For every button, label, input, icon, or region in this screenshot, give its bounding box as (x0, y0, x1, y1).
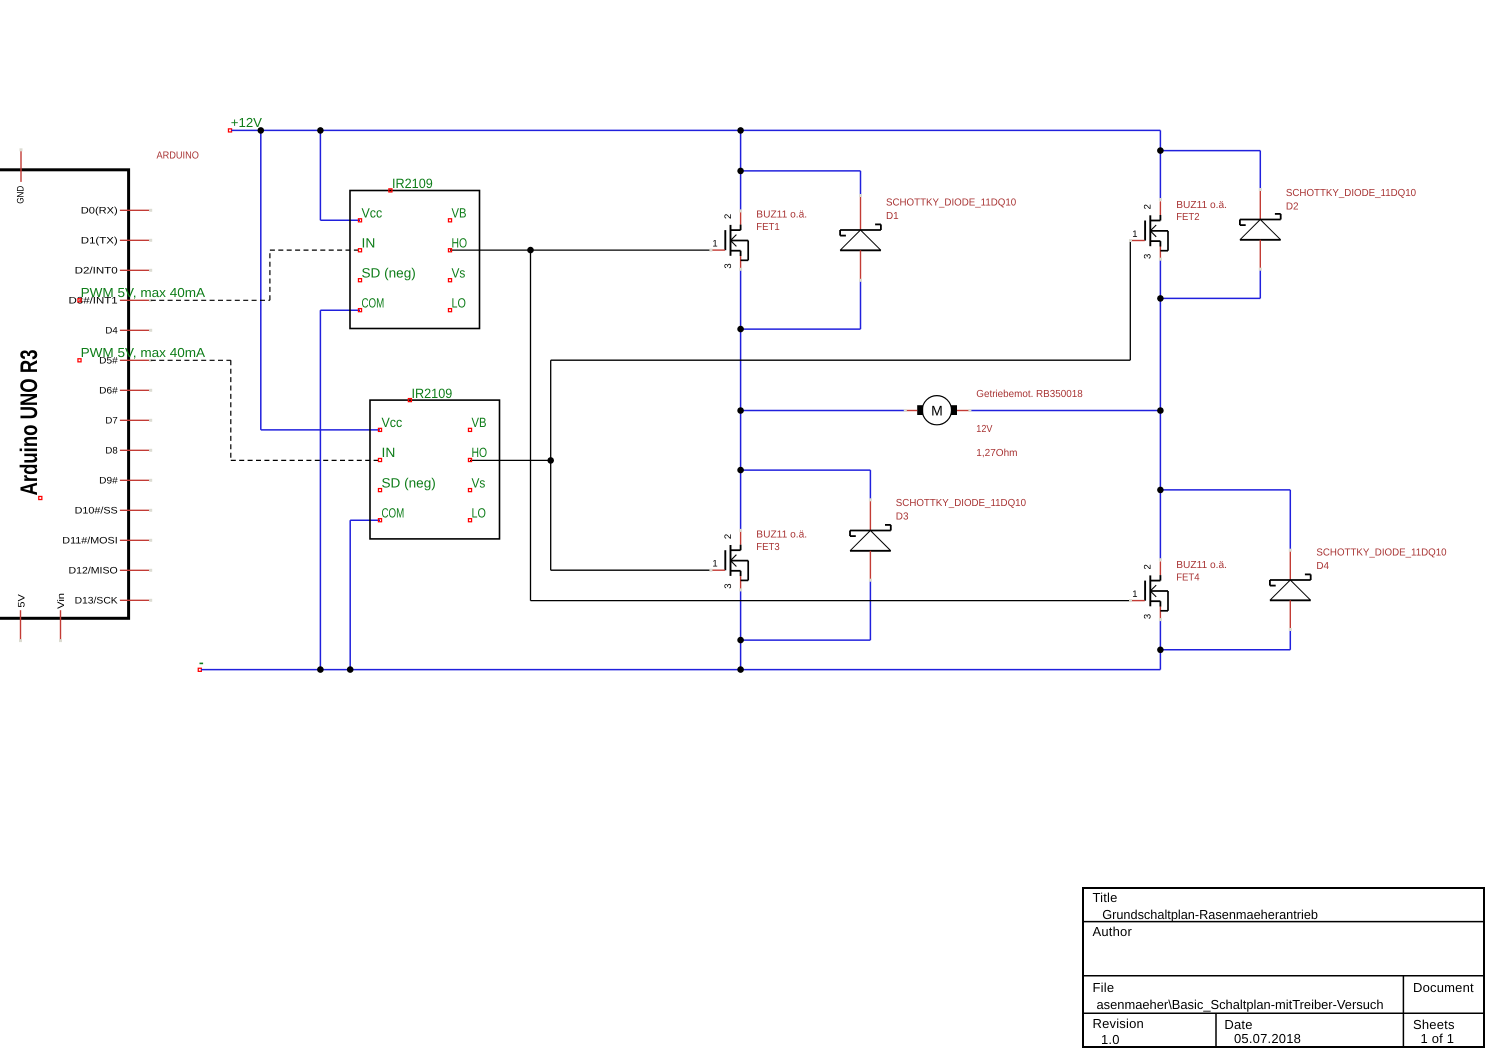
svg-text:1,27Ohm: 1,27Ohm (976, 448, 1017, 459)
wire junction at 1160.4,489.9 (1157, 487, 1164, 494)
diode D4 (Schottky 11DQ10) (1289, 550, 1291, 580)
svg-text:IN: IN (382, 445, 396, 460)
wire junction at 320.4,130.4 (317, 127, 324, 134)
U1 pin Vcc (358, 219, 361, 222)
wire junction at 1160.4,410.5 (1157, 407, 1164, 414)
svg-text:05.07.2018: 05.07.2018 (1234, 1031, 1301, 1046)
svg-text:1.0: 1.0 (1101, 1032, 1120, 1047)
svg-text:2: 2 (1143, 204, 1154, 210)
wire junction at 740.6,470.1 (737, 467, 744, 474)
U1 pin IN (358, 249, 361, 252)
Arduino pin 5V (20, 610, 22, 640)
wire junction at 740.6,410.5 (737, 407, 744, 414)
wire GND bottom rail (201, 669, 1160, 671)
svg-text:D0(RX): D0(RX) (81, 206, 118, 217)
wire D3 branch bottom (869, 580, 871, 640)
wire D4 branch top (1160, 489, 1290, 491)
svg-text:Grundschaltplan-Rasenmaeherant: Grundschaltplan-Rasenmaeherantrieb (1102, 907, 1318, 922)
wire end cap at 1160.4,619.6 (1159, 618, 1162, 621)
svg-text:Vcc: Vcc (382, 415, 403, 430)
wire end cap at 710.9,250.1 (709, 249, 712, 252)
svg-text:COM: COM (362, 295, 385, 310)
svg-text:D8: D8 (105, 446, 117, 457)
Arduino pin D0(RX) (120, 209, 149, 211)
svg-text:SD (neg): SD (neg) (382, 475, 436, 490)
diode D3 (Schottky 11DQ10) (869, 500, 871, 531)
node PWM net 1 marker (78, 299, 81, 302)
transistor FET2 (BUZ11) (1159, 201, 1161, 215)
wire junction at 740.6,130.4 (737, 127, 744, 134)
U2 pin HO (468, 458, 471, 461)
svg-text:1: 1 (712, 239, 718, 250)
svg-text:FET3: FET3 (756, 542, 780, 553)
U2 pin SD (neg) (378, 489, 381, 492)
svg-text:3: 3 (723, 263, 734, 269)
wire end cap at 740.6,269.3 (739, 268, 742, 271)
svg-text:PWM 5V, max 40mA: PWM 5V, max 40mA (81, 345, 206, 360)
node +12V net label marker (228, 129, 231, 132)
U1 pin SD (neg) (358, 279, 361, 282)
svg-text:COM: COM (382, 505, 405, 520)
wire +12V drop to IC1 Vcc (319, 130, 321, 220)
wire junction at 740.6,170.9 (737, 168, 744, 175)
svg-text:12V: 12V (976, 424, 992, 435)
svg-text:Date: Date (1224, 1017, 1252, 1032)
wire HO1 riser down to FET4 gate row (530, 250, 532, 600)
wire end cap at 1130.5,600.6 (1129, 599, 1132, 602)
U2 origin marker (408, 399, 411, 402)
wire motor left (741, 410, 905, 412)
wire D2 branch bottom (1259, 269, 1261, 298)
wire junction at 740.6,669.6 (737, 666, 744, 673)
Arduino pin D3#/INT1 (120, 299, 149, 301)
wire D1 branch top (741, 170, 861, 172)
wire junction at 740.6,329.1 (737, 326, 744, 333)
Arduino pin D10#/SS (120, 509, 149, 511)
title block vertical divider revision/date (1215, 1013, 1217, 1047)
svg-text:+12V: +12V (231, 115, 263, 130)
wire end cap at 1130.5,240.5 (1129, 239, 1132, 242)
wire end cap at 710.9,570.2 (709, 569, 712, 572)
wire junction at 740.6,640.1 (737, 637, 744, 644)
svg-text:Document: Document (1413, 980, 1474, 995)
svg-text:PWM 5V, max 40mA: PWM 5V, max 40mA (81, 285, 206, 300)
Arduino pin D6# (120, 389, 149, 391)
wire end cap at 740.6,210.9 (739, 209, 742, 212)
Arduino pin D9# (120, 479, 149, 481)
svg-text:LO: LO (472, 505, 486, 520)
wire end cap at 740.6,530.4 (739, 529, 742, 532)
svg-text:Sheets: Sheets (1413, 1017, 1455, 1032)
U2 pin COM (378, 519, 381, 522)
svg-text:1: 1 (1132, 229, 1138, 240)
svg-text:Arduino UNO R3: Arduino UNO R3 (16, 350, 43, 496)
svg-text:Vcc: Vcc (362, 206, 383, 221)
transistor FET3 (BUZ11) (740, 531, 742, 545)
U1 pin COM (358, 309, 361, 312)
svg-text:1 of 1: 1 of 1 (1421, 1031, 1455, 1046)
op-amp/driver U1 IR2109 box (350, 191, 480, 329)
title block divider 3 (1083, 1012, 1484, 1014)
svg-text:D10#/SS: D10#/SS (75, 506, 118, 517)
Arduino UNO R3 module box (0, 170, 129, 619)
svg-text:D4: D4 (105, 326, 117, 337)
svg-text:HO: HO (472, 445, 488, 460)
svg-text:FET4: FET4 (1176, 572, 1200, 583)
svg-text:D3: D3 (896, 511, 909, 522)
wire end cap at 1160.4,199.5 (1159, 198, 1162, 201)
svg-text:D13/SCK: D13/SCK (75, 596, 119, 607)
motor pin left (907, 410, 918, 412)
motor M1 (DC motor) (922, 396, 951, 425)
wire dashed PWM net D3#/INT1 to IC1 IN (151, 299, 270, 301)
U1 origin marker (389, 189, 392, 192)
wire IC1 COM to GND rail (320, 309, 360, 311)
Arduino pin D8 (120, 449, 149, 451)
Arduino pin D1(TX) (120, 239, 149, 241)
U2 pin LO (468, 519, 471, 522)
node - (GND) net label marker (198, 668, 201, 671)
Arduino pin D7 (120, 419, 149, 421)
U2 pin VB (468, 428, 471, 431)
Arduino pin D13/SCK (120, 599, 149, 601)
svg-text:SCHOTTKY_DIODE_11DQ10: SCHOTTKY_DIODE_11DQ10 (886, 198, 1017, 209)
svg-text:D1(TX): D1(TX) (81, 236, 118, 247)
transistor FET1 (BUZ11) (740, 211, 742, 225)
node PWM net 2 marker (78, 359, 81, 362)
svg-text:SCHOTTKY_DIODE_11DQ10: SCHOTTKY_DIODE_11DQ10 (1286, 188, 1417, 199)
U2 pin Vs (468, 489, 471, 492)
svg-text:SCHOTTKY_DIODE_11DQ10: SCHOTTKY_DIODE_11DQ10 (1316, 548, 1447, 559)
wire end cap at 1160.4,559.7 (1159, 558, 1162, 561)
wire D3 branch top (741, 469, 871, 471)
wire junction at 530.5,250.1 (527, 247, 534, 254)
wire left bridge leg middle (FET1 source to FET3 drain) (740, 269, 742, 530)
U2 pin Vcc (378, 428, 381, 431)
Arduino pin D4 (120, 329, 149, 331)
wire D2 branch top (1160, 150, 1260, 152)
U1 pin VB (448, 219, 451, 222)
wire junction at 550.7,460.4 (547, 457, 554, 464)
svg-text:BUZ11 o.ä.: BUZ11 o.ä. (1176, 560, 1227, 571)
wire junction at 320.4,669.6 (317, 666, 324, 673)
svg-text:D1: D1 (886, 211, 899, 222)
svg-text:D2/INT0: D2/INT0 (75, 266, 118, 277)
svg-text:2: 2 (1143, 564, 1154, 570)
svg-text:IR2109: IR2109 (412, 386, 453, 401)
svg-text:5V: 5V (16, 593, 27, 607)
svg-text:D7: D7 (105, 416, 117, 427)
wire left bridge leg lower (FET3 source to GND rail) (740, 590, 742, 670)
svg-text:M: M (931, 402, 943, 418)
wire D4 branch bottom (1289, 630, 1291, 650)
svg-text:3: 3 (1143, 613, 1154, 619)
svg-text:File: File (1093, 980, 1115, 995)
title block divider 1 (1083, 921, 1484, 923)
motor pin right (957, 410, 969, 412)
wire right rail upper (+12V to FET2 drain) (1159, 130, 1161, 199)
svg-text:D4: D4 (1316, 561, 1329, 572)
wire +12V drop to IC2 Vcc (260, 130, 262, 430)
svg-text:D12/MISO: D12/MISO (69, 566, 118, 577)
svg-text:D2: D2 (1286, 202, 1299, 213)
svg-text:Title: Title (1093, 890, 1118, 905)
wire HO2 upper run to FET2 (551, 359, 1131, 361)
wire end cap at 1160.4,259.2 (1159, 258, 1162, 261)
svg-text:BUZ11 o.ä.: BUZ11 o.ä. (1176, 200, 1227, 211)
diode D2 (Schottky 11DQ10) (1259, 190, 1261, 220)
title block frame (1083, 888, 1484, 1047)
svg-text:LO: LO (452, 295, 466, 310)
wire motor right (969, 410, 1160, 412)
svg-text:BUZ11 o.ä.: BUZ11 o.ä. (756, 209, 807, 220)
svg-text:2: 2 (723, 213, 734, 219)
svg-text:Author: Author (1093, 924, 1133, 939)
wire IC2 COM to GND rail (350, 519, 380, 521)
Arduino pin D2/INT0 (120, 269, 149, 271)
wire FET2 gate riser (1129, 241, 1131, 361)
U2 pin IN (378, 458, 381, 461)
wire junction at 1160.4,298.4 (1157, 295, 1164, 302)
svg-text:2: 2 (723, 533, 734, 539)
svg-text:3: 3 (1143, 253, 1154, 259)
Arduino pin D12/MISO (120, 569, 149, 571)
op-amp/driver U2 IR2109 box (370, 400, 500, 539)
Arduino pin D11#/MOSI (120, 539, 149, 541)
U1 pin LO (448, 309, 451, 312)
diode D1 (Schottky 11DQ10) (860, 196, 862, 231)
net label - (200, 663, 204, 665)
wire HO2 riser (550, 360, 552, 570)
svg-text:D6#: D6# (99, 386, 118, 397)
svg-text:VB: VB (472, 415, 487, 430)
wire HO2 lower run to FET3 gate (551, 569, 711, 571)
svg-text:D9#: D9# (99, 476, 118, 487)
wire end cap at 740.6,589.9 (739, 588, 742, 591)
Arduino pin D5# (120, 359, 149, 361)
Arduino pin GND (20, 150, 22, 182)
U1 pin HO (448, 249, 451, 252)
svg-text:Getriebemot. RB350018: Getriebemot. RB350018 (976, 389, 1083, 400)
wire +12V top rail (232, 129, 1161, 131)
svg-text:ARDUINO: ARDUINO (157, 151, 199, 162)
wire junction at 350.2,669.6 (347, 666, 354, 673)
svg-text:Revision: Revision (1093, 1016, 1144, 1031)
wire right rail middle (FET2 source to FET4 drain) (1159, 259, 1161, 560)
svg-text:FET2: FET2 (1176, 212, 1200, 223)
wire junction at 1160.4,649.8 (1157, 647, 1164, 654)
svg-text:HO: HO (452, 235, 468, 250)
ARDUINO part origin marker (39, 496, 42, 499)
title block vertical divider document (1402, 976, 1404, 1047)
svg-text:1: 1 (1132, 589, 1138, 600)
svg-text:SCHOTTKY_DIODE_11DQ10: SCHOTTKY_DIODE_11DQ10 (896, 498, 1027, 509)
wire dashed PWM net D5# to IC2 IN (151, 359, 231, 361)
title block divider 2 (1083, 975, 1484, 977)
svg-text:GND: GND (16, 186, 27, 204)
svg-text:IN: IN (362, 235, 376, 250)
svg-text:Vs: Vs (472, 475, 486, 490)
svg-text:Vs: Vs (452, 265, 466, 280)
U1 pin Vs (448, 279, 451, 282)
wire left bridge leg upper (+12V to FET1 drain) (740, 130, 742, 211)
wire HO2 output (470, 459, 551, 461)
svg-text:FET1: FET1 (756, 222, 780, 233)
svg-text:BUZ11 o.ä.: BUZ11 o.ä. (756, 530, 807, 541)
svg-text:IR2109: IR2109 (392, 176, 433, 191)
Arduino pin Vin (60, 610, 62, 640)
wire HO1 output to FET1 gate (450, 249, 711, 251)
transistor FET4 (BUZ11) (1159, 561, 1161, 575)
svg-text:SD (neg): SD (neg) (362, 265, 416, 280)
wire HO1 to FET4 gate (531, 600, 1131, 602)
wire right rail lower (FET4 source to GND rail) (1159, 620, 1161, 670)
wire D1 branch bottom (860, 280, 862, 329)
svg-text:Vin: Vin (56, 593, 67, 609)
svg-text:3: 3 (723, 583, 734, 589)
svg-text:VB: VB (452, 206, 467, 221)
svg-text:1: 1 (712, 559, 718, 570)
svg-text:asenmaeher\Basic_Schaltplan-mi: asenmaeher\Basic_Schaltplan-mitTreiber-V… (1097, 997, 1384, 1012)
svg-text:D11#/MOSI: D11#/MOSI (62, 536, 117, 547)
wire junction at 260.8,130.4 (258, 127, 265, 134)
wire junction at 1160.4,150.6 (1157, 147, 1164, 154)
